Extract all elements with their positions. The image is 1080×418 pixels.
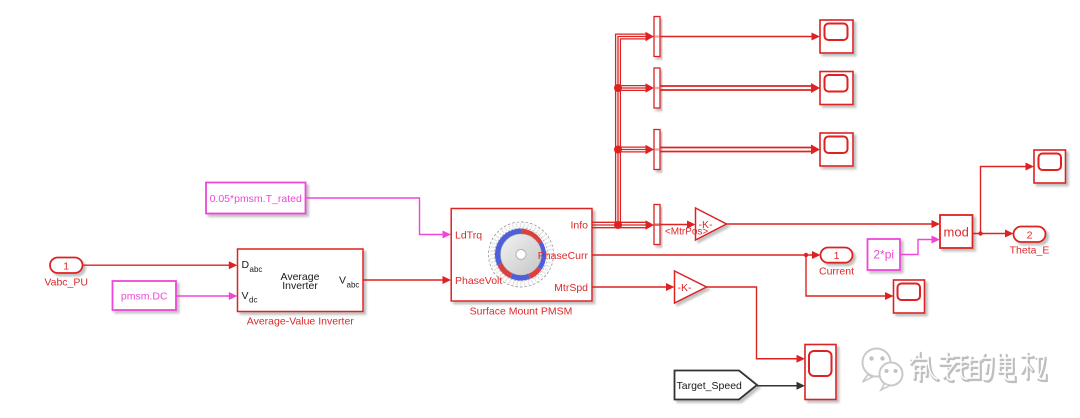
svg-text:MtrSpd: MtrSpd (554, 282, 588, 294)
svg-text:PhaseCurr: PhaseCurr (538, 250, 589, 262)
constant 2*pi (868, 239, 901, 270)
bus wire vertical (616, 32, 654, 225)
svg-text:LdTrq: LdTrq (455, 229, 482, 241)
svg-text:Surface Mount PMSM: Surface Mount PMSM (470, 306, 573, 318)
svg-text:Vabc_PU: Vabc_PU (44, 277, 88, 289)
svg-text:abc: abc (250, 265, 263, 274)
scope 5 (805, 345, 836, 400)
bus wire Info (592, 220, 654, 230)
svg-text:Target_Speed: Target_Speed (677, 380, 743, 392)
port labels PMSM (455, 219, 588, 293)
svg-text:mod: mod (944, 224, 969, 239)
bus branch row3 (618, 145, 654, 155)
junction Current (804, 253, 808, 257)
svg-text:Average-Value Inverter: Average-Value Inverter (247, 316, 355, 328)
block Surface Mount PMSM (451, 209, 592, 302)
gain K2 (675, 271, 707, 303)
wire mod out to scope6 (981, 163, 1035, 234)
constant 0.05*pmsm.T_rated (206, 183, 306, 214)
outport 2 Theta_E (1014, 227, 1046, 243)
svg-text:0.05*pmsm.T_rated: 0.05*pmsm.T_rated (210, 193, 302, 205)
watermark logo bubbles (863, 349, 903, 391)
wire gain1 to mod (727, 220, 941, 228)
svg-text:abc: abc (347, 280, 360, 289)
svg-text:2*pi: 2*pi (873, 248, 894, 262)
wire 2*pi to mod (900, 236, 940, 255)
bus junction row2 (614, 84, 622, 92)
wire selector3 to scope3 (660, 145, 820, 155)
svg-text:2: 2 (1027, 229, 1033, 241)
wire mod to Theta_E (973, 230, 1014, 238)
svg-text:D: D (242, 259, 250, 271)
svg-text:1: 1 (63, 260, 69, 272)
svg-text:Info: Info (570, 219, 588, 231)
svg-text:Inverter: Inverter (282, 280, 318, 292)
bus junction row3 (614, 146, 622, 154)
svg-text:dc: dc (249, 296, 257, 305)
motor icon (489, 222, 554, 287)
wire selector1 to scope1 (660, 33, 820, 41)
bus selector 3 (654, 130, 660, 170)
wire Current junction to scope4 (806, 255, 894, 300)
bus selector 1 (654, 17, 660, 57)
wire T_rated to LdTrq (306, 198, 452, 239)
svg-text:-K-: -K- (678, 282, 693, 294)
outport 1 Current (821, 248, 853, 263)
junction mod out (978, 231, 982, 235)
wire Vabc to PhaseVolt (363, 276, 451, 284)
svg-text:V: V (242, 290, 249, 302)
wire selector4 to gain1 (660, 221, 696, 229)
wire pmsm.DC to Vdc (176, 292, 237, 300)
bus selector 4 (654, 205, 660, 245)
block Average-Value Inverter (238, 249, 364, 312)
scope 4 (894, 280, 925, 313)
constant pmsm.DC (113, 281, 177, 310)
wire Vabc_PU to Dabc (83, 261, 238, 269)
watermark text (911, 352, 1046, 381)
svg-text:1: 1 (834, 250, 840, 262)
scope 2 (820, 72, 853, 105)
block Target_Speed (675, 371, 758, 400)
wire selector2 to scope2 (660, 83, 820, 93)
bus selector 2 (654, 68, 660, 108)
inport 1 Vabc_PU (50, 258, 83, 274)
svg-text:V: V (339, 275, 346, 287)
bus junction (614, 221, 622, 229)
bus branch row2 (618, 83, 654, 93)
wire Target_Speed to scope5 (757, 382, 805, 390)
svg-text:Current: Current (819, 266, 854, 278)
wire MtrSpd to gain2 (592, 283, 675, 291)
scope 1 (820, 20, 853, 53)
svg-text:PhaseVolt: PhaseVolt (455, 275, 502, 287)
wire PhaseCurr to Current (592, 251, 821, 259)
gain K1 (696, 208, 727, 240)
svg-text:pmsm.DC: pmsm.DC (121, 291, 168, 303)
block mod (940, 215, 973, 248)
wire gain2 to scope5 (707, 287, 806, 363)
svg-text:<MtrPos>: <MtrPos> (665, 227, 709, 238)
svg-text:Theta_E: Theta_E (1010, 245, 1050, 257)
scope 3 (820, 133, 853, 166)
scope 6 (1034, 150, 1066, 183)
